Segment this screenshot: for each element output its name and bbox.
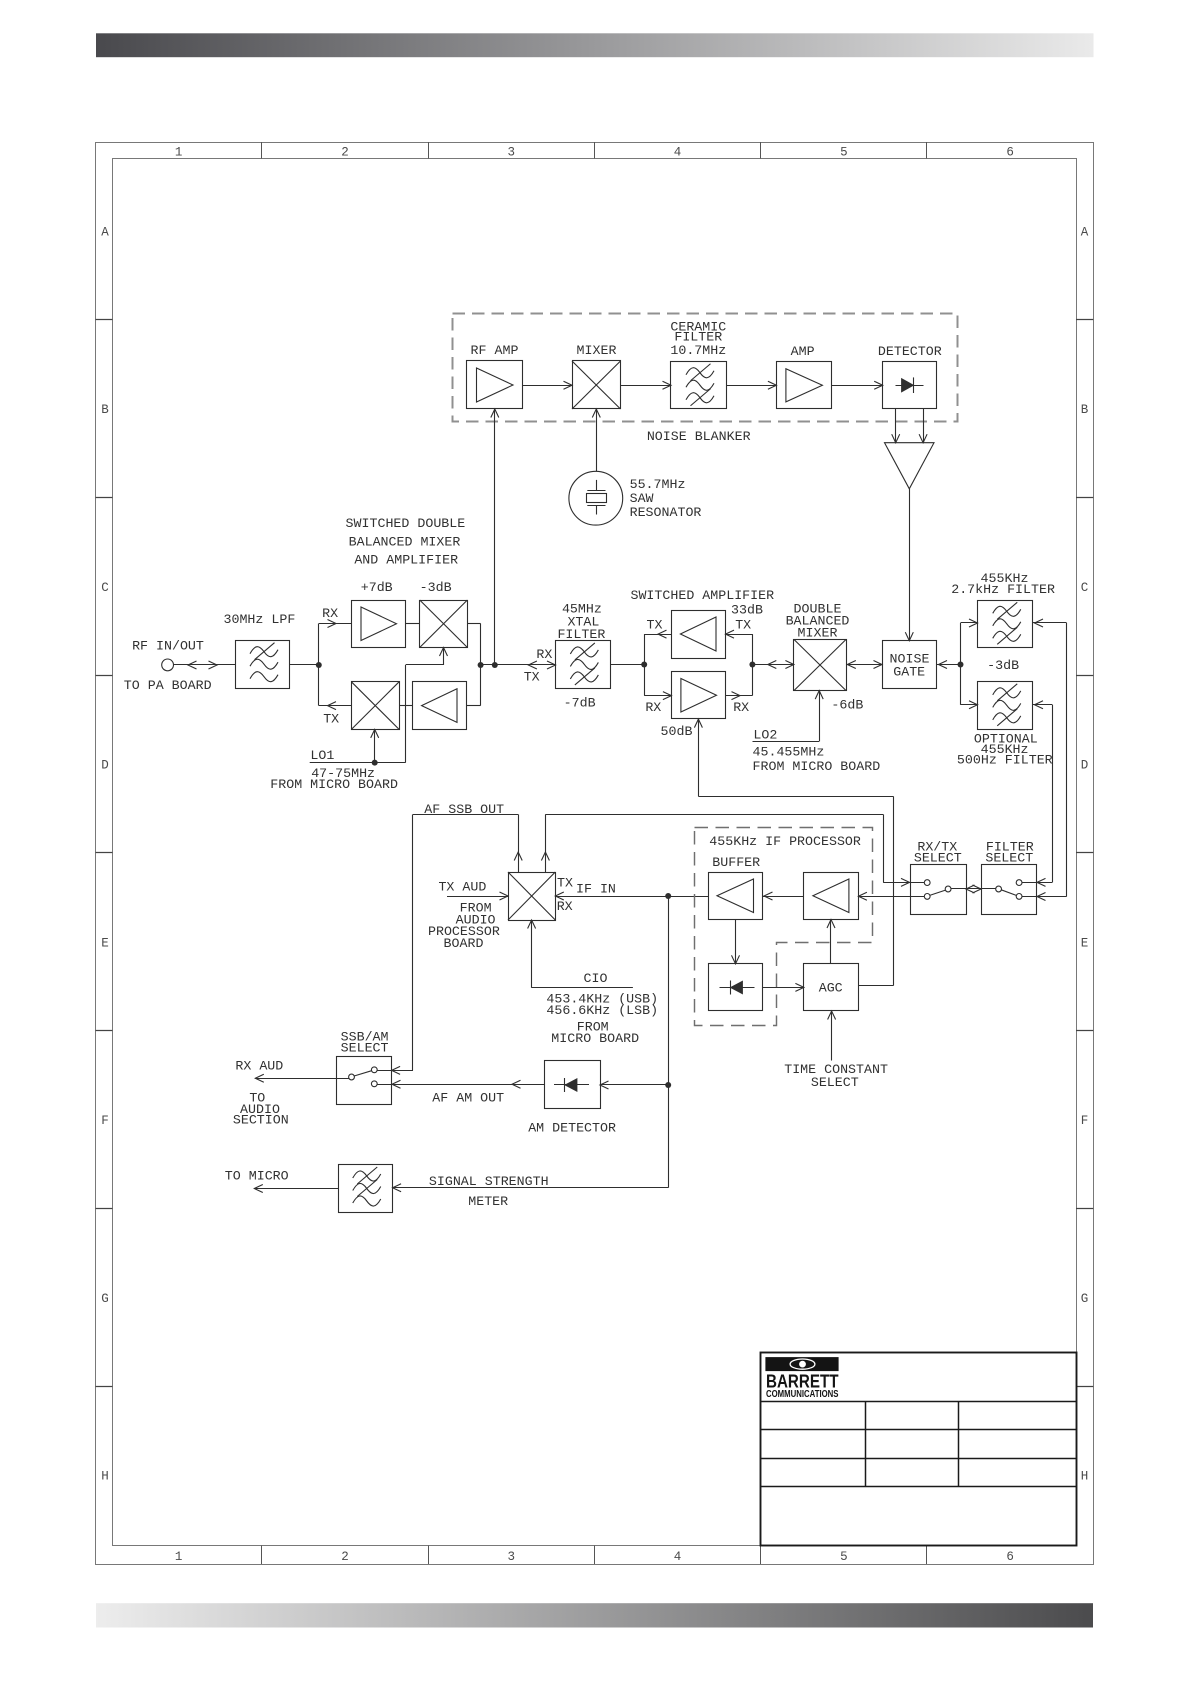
svg-text:RX: RX: [536, 647, 552, 662]
svg-text:G: G: [1081, 1292, 1089, 1306]
svg-text:H: H: [101, 1470, 109, 1484]
svg-text:RX: RX: [557, 899, 573, 914]
svg-text:SELECT: SELECT: [341, 1041, 389, 1056]
svg-text:TX: TX: [323, 711, 339, 726]
svg-text:SIGNAL STRENGTH: SIGNAL STRENGTH: [429, 1174, 549, 1189]
svg-text:TX: TX: [524, 670, 540, 685]
svg-text:AM DETECTOR: AM DETECTOR: [528, 1120, 616, 1135]
svg-text:-7dB: -7dB: [564, 696, 596, 711]
svg-text:A: A: [1081, 225, 1089, 239]
svg-text:500Hz FILTER: 500Hz FILTER: [957, 752, 1053, 767]
svg-text:LO1: LO1: [310, 748, 334, 763]
svg-text:DETECTOR: DETECTOR: [878, 344, 942, 359]
svg-text:B: B: [1081, 403, 1089, 417]
svg-text:RESONATOR: RESONATOR: [630, 505, 702, 520]
svg-text:SELECT: SELECT: [914, 850, 962, 865]
svg-text:IF IN: IF IN: [576, 882, 616, 897]
svg-text:TX AUD: TX AUD: [438, 879, 486, 894]
svg-text:FILTER: FILTER: [557, 627, 605, 642]
svg-text:1: 1: [175, 1550, 183, 1564]
svg-text:6: 6: [1006, 146, 1014, 160]
svg-text:C: C: [101, 581, 109, 595]
svg-text:50dB: 50dB: [661, 724, 693, 739]
svg-text:AF AM OUT: AF AM OUT: [432, 1090, 504, 1105]
svg-text:456.6KHz (LSB): 456.6KHz (LSB): [546, 1003, 658, 1018]
svg-text:33dB: 33dB: [731, 602, 763, 617]
svg-text:3: 3: [507, 146, 515, 160]
svg-text:SELECT: SELECT: [985, 850, 1033, 865]
svg-text:NOISE BLANKER: NOISE BLANKER: [647, 429, 751, 444]
svg-text:SECTION: SECTION: [233, 1112, 289, 1127]
svg-text:METER: METER: [468, 1194, 508, 1209]
svg-text:CIO: CIO: [584, 971, 608, 986]
svg-text:SWITCHED AMPLIFIER: SWITCHED AMPLIFIER: [630, 588, 774, 603]
svg-text:4: 4: [674, 146, 682, 160]
svg-text:BALANCED MIXER: BALANCED MIXER: [349, 534, 461, 549]
svg-text:RX AUD: RX AUD: [235, 1058, 283, 1073]
svg-text:RX: RX: [322, 606, 338, 621]
svg-text:455KHz IF PROCESSOR: 455KHz IF PROCESSOR: [709, 834, 861, 849]
svg-text:30MHz LPF: 30MHz LPF: [223, 612, 295, 627]
svg-text:AND AMPLIFIER: AND AMPLIFIER: [354, 553, 458, 568]
svg-text:E: E: [101, 936, 109, 950]
svg-text:F: F: [1081, 1114, 1089, 1128]
svg-text:55.7MHz: 55.7MHz: [630, 477, 686, 492]
svg-text:-6dB: -6dB: [831, 698, 863, 713]
svg-text:BUFFER: BUFFER: [712, 855, 760, 870]
svg-text:G: G: [101, 1292, 109, 1306]
svg-text:TO PA BOARD: TO PA BOARD: [124, 678, 212, 693]
svg-text:RX: RX: [645, 700, 661, 715]
svg-text:E: E: [1081, 936, 1089, 950]
svg-text:D: D: [101, 759, 109, 773]
svg-text:SWITCHED DOUBLE: SWITCHED DOUBLE: [346, 516, 466, 531]
svg-text:5: 5: [840, 146, 848, 160]
svg-text:2.7kHz FILTER: 2.7kHz FILTER: [951, 582, 1055, 597]
svg-text:FROM MICRO BOARD: FROM MICRO BOARD: [270, 777, 398, 792]
svg-text:D: D: [1081, 759, 1089, 773]
svg-text:SAW: SAW: [630, 491, 654, 506]
svg-text:A: A: [101, 225, 109, 239]
svg-text:SELECT: SELECT: [811, 1075, 859, 1090]
svg-text:FROM MICRO BOARD: FROM MICRO BOARD: [753, 759, 881, 774]
svg-text:F: F: [101, 1114, 109, 1128]
svg-text:TX: TX: [735, 618, 751, 633]
svg-text:-3dB: -3dB: [987, 658, 1019, 673]
svg-text:10.7MHz: 10.7MHz: [670, 343, 726, 358]
svg-text:2: 2: [341, 146, 349, 160]
svg-text:6: 6: [1006, 1550, 1014, 1564]
svg-text:B: B: [101, 403, 109, 417]
svg-text:+7dB: +7dB: [361, 580, 393, 595]
svg-text:COMMUNICATIONS: COMMUNICATIONS: [766, 1389, 839, 1400]
svg-text:H: H: [1081, 1470, 1089, 1484]
svg-text:-3dB: -3dB: [420, 580, 452, 595]
svg-text:TX: TX: [557, 875, 573, 890]
svg-text:RX: RX: [733, 700, 749, 715]
svg-text:TX: TX: [647, 618, 663, 633]
svg-text:C: C: [1081, 581, 1089, 595]
svg-text:TO MICRO: TO MICRO: [225, 1168, 289, 1183]
svg-text:5: 5: [840, 1550, 848, 1564]
svg-text:2: 2: [341, 1550, 349, 1564]
svg-text:BOARD: BOARD: [444, 936, 484, 951]
svg-text:LO2: LO2: [753, 728, 777, 743]
svg-text:RF IN/OUT: RF IN/OUT: [132, 638, 204, 653]
svg-text:GATE: GATE: [893, 665, 925, 680]
svg-text:RF AMP: RF AMP: [471, 343, 519, 358]
svg-text:AF SSB OUT: AF SSB OUT: [424, 802, 504, 817]
svg-text:1: 1: [175, 146, 183, 160]
svg-text:45.455MHz: 45.455MHz: [753, 745, 825, 760]
svg-text:MIXER: MIXER: [577, 343, 617, 358]
svg-text:MICRO BOARD: MICRO BOARD: [551, 1031, 639, 1046]
svg-text:AMP: AMP: [791, 344, 815, 359]
svg-text:4: 4: [674, 1550, 682, 1564]
svg-text:3: 3: [507, 1550, 515, 1564]
svg-text:MIXER: MIXER: [798, 625, 838, 640]
svg-text:AGC: AGC: [819, 980, 843, 995]
